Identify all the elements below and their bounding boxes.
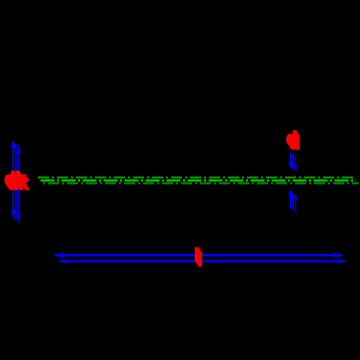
wire centerline (green dash-dot, row B bright) xyxy=(41,179,357,181)
dimension line l (bottom horizontal, copy A) xyxy=(54,253,344,258)
svg-text:l: l xyxy=(198,250,203,270)
dimension line dk (left vertical, copy A) xyxy=(11,140,16,219)
dimension line dk (right vertical, copy B) xyxy=(16,145,21,224)
dimension d lower arrow (copies) xyxy=(288,190,298,213)
dimension d upper arrow (copies) xyxy=(288,153,298,173)
wire centerline (green dash-dot, row C echo) xyxy=(43,182,359,184)
dimension line dk (middle faint copy) xyxy=(15,144,17,221)
svg-text:dk: dk xyxy=(8,174,30,194)
wire centerline (green dash-dot, row A) xyxy=(38,177,354,179)
svg-text:d: d xyxy=(289,133,300,153)
dimension line l (bottom horizontal, copy B echo) xyxy=(59,259,347,264)
